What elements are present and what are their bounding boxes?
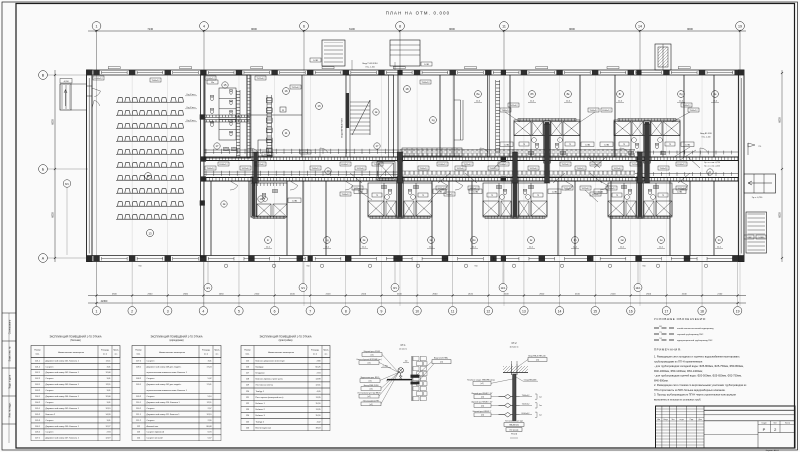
svg-text:1-ОВ4: 1-ОВ4	[604, 144, 609, 146]
svg-text:2500: 2500	[539, 293, 545, 295]
svg-text:Кабинет 3: Кабинет 3	[256, 415, 266, 417]
svg-text:910: 910	[475, 266, 478, 268]
svg-text:Двухместный номер 109 для люде: Двухместный номер 109 для людей с	[147, 383, 182, 386]
svg-text:Тамбур 2: Тамбур 2	[256, 421, 265, 423]
svg-text:1: 1	[96, 25, 98, 29]
svg-text:2шт: 2шт	[539, 414, 542, 416]
svg-text:Т3-40х2,2: Т3-40х2,2	[589, 110, 597, 112]
svg-text:Р: Р	[763, 427, 766, 432]
svg-text:Т3-40х2,2: Т3-40х2,2	[311, 168, 319, 170]
svg-text:86,48: 86,48	[206, 426, 212, 428]
svg-text:Т3-25х4,2: Т3-25х4,2	[631, 164, 639, 166]
svg-text:1050: 1050	[219, 293, 225, 295]
svg-text:12,19: 12,19	[105, 438, 111, 440]
svg-text:СТ-2: СТ-2	[511, 343, 517, 345]
svg-text:102.2: 102.2	[35, 378, 41, 380]
svg-text:Наименование помещения: Наименование помещения	[159, 352, 185, 354]
svg-text:2100: 2100	[468, 293, 474, 295]
svg-text:Т4-25х4,2: Т4-25х4,2	[581, 188, 589, 190]
svg-text:Т3-40х2,2: Т3-40х2,2	[419, 168, 427, 170]
svg-text:18: 18	[700, 309, 704, 313]
svg-text:(13 мест): (13 мест)	[510, 346, 519, 348]
svg-text:Коридор: Коридор	[256, 366, 265, 368]
svg-text:НТ1 [н3]: НТ1 [н3]	[511, 434, 517, 436]
svg-text:104.1: 104.1	[35, 396, 41, 398]
svg-text:14,98: 14,98	[315, 379, 321, 381]
svg-text:Приме-: Приме-	[113, 350, 119, 352]
svg-text:11: 11	[502, 25, 506, 29]
svg-text:107.1: 107.1	[35, 438, 41, 440]
svg-text:1-ОВ5: 1-ОВ5	[424, 64, 429, 66]
svg-text:Вентиляционная: Вентиляционная	[256, 427, 272, 429]
svg-text:9600: 9600	[687, 27, 693, 31]
svg-text:105.1: 105.1	[35, 408, 41, 410]
svg-text:150: 150	[405, 360, 408, 362]
svg-text:- для трубопроводов холодной в: - для трубопроводов холодной воды: Ф25-8…	[654, 364, 744, 368]
svg-text:1м: 1м	[620, 238, 623, 242]
svg-text:Двухместный номер 101. Комната: Двухместный номер 101. Комната 1	[46, 359, 80, 362]
svg-text:В1-40х2,2: В1-40х2,2	[499, 164, 507, 166]
svg-text:Санузел: Санузел	[46, 378, 55, 380]
svg-text:Двухместный номер 104. Комната: Двухместный номер 104. Комната 1	[46, 395, 80, 398]
svg-text:-0,950: -0,950	[63, 81, 68, 83]
svg-text:ЭКСПЛИКАЦИЯ ПОМЕЩЕНИЙ 1-ГО ЭТА: ЭКСПЛИКАЦИЯ ПОМЕЩЕНИЙ 1-ГО ЭТАЖА	[150, 336, 202, 339]
svg-text:горячий трубопровод ГВС: горячий трубопровод ГВС	[677, 333, 704, 336]
svg-text:16: 16	[629, 309, 633, 313]
svg-text:104.2: 104.2	[35, 402, 41, 404]
svg-text:103.1: 103.1	[35, 384, 41, 386]
svg-text:ВОДОМЕРНЫЙ УЗЕЛ: ВОДОМЕРНЫЙ УЗЕЛ	[341, 118, 344, 138]
svg-text:Площадь: Площадь	[101, 350, 109, 352]
svg-text:В1-40х2,2: В1-40х2,2	[602, 110, 610, 112]
svg-text:В1-40х2,2: В1-40х2,2	[591, 164, 599, 166]
svg-text:циркуляционный трубопровод ГВС: циркуляционный трубопровод ГВС	[677, 339, 713, 342]
svg-text:(коридорная): (коридорная)	[169, 340, 183, 342]
svg-text:60,26: 60,26	[315, 366, 321, 368]
svg-text:- для трубопроводов горячей во: - для трубопроводов горячей воды: Ф20-50…	[654, 374, 742, 378]
svg-text:Тамбур 1: Тамбур 1	[256, 391, 265, 393]
svg-text:1-ОВ4: 1-ОВ4	[677, 191, 682, 193]
svg-text:Кол.уч: Кол.уч	[664, 419, 669, 421]
svg-text:П-1: П-1	[759, 146, 762, 148]
svg-text:13: 13	[522, 309, 526, 313]
svg-text:17,41: 17,41	[206, 384, 212, 386]
svg-text:Санузел: Санузел	[147, 420, 156, 422]
svg-text:Листов: Листов	[785, 423, 790, 425]
svg-text:102.1: 102.1	[35, 372, 41, 374]
svg-text:Т3: Т3	[662, 195, 664, 197]
svg-text:В1-40х2,2: В1-40х2,2	[341, 164, 349, 166]
svg-text:109.1: 109.1	[136, 384, 142, 386]
svg-text:6000: 6000	[52, 212, 55, 218]
svg-text:8д: 8д	[680, 92, 683, 96]
svg-text:Приме-: Приме-	[323, 350, 329, 352]
svg-text:11: 11	[285, 131, 288, 135]
svg-text:Лист: Лист	[671, 419, 674, 421]
svg-text:105.2: 105.2	[35, 414, 41, 416]
svg-text:Т3-25х4,2: Т3-25х4,2	[256, 78, 264, 80]
svg-text:Стадия: Стадия	[761, 423, 766, 425]
svg-text:Кабинет 2: Кабинет 2	[256, 409, 266, 411]
svg-text:16: 16	[285, 89, 288, 93]
svg-text:910: 910	[307, 266, 310, 268]
svg-text:Ввод КФВ-40 ПВХ-110: Ввод КФВ-40 ПВХ-110	[528, 354, 545, 357]
svg-text:Ур.з. ч.п. отм. -0,020: Ур.з. ч.п. отм. -0,020	[704, 166, 720, 168]
svg-text:2500: 2500	[112, 293, 118, 295]
svg-text:Т3-40х2,2: Т3-40х2,2	[206, 168, 214, 170]
svg-text:Т3: Т3	[569, 144, 571, 146]
svg-text:2100: 2100	[575, 293, 581, 295]
svg-text:1б: 1б	[317, 104, 320, 108]
svg-text:Двухместный номер 110. Комната: Двухместный номер 110. Комната 1	[147, 401, 181, 404]
svg-text:1ж: 1ж	[429, 238, 432, 242]
svg-text:8: 8	[399, 25, 401, 29]
svg-text:Т4-25х4,2: Т4-25х4,2	[301, 152, 309, 154]
svg-text:Приме-: Приме-	[214, 350, 220, 352]
svg-text:12: 12	[147, 174, 150, 178]
svg-text:2. Разводящие сети стояков со: 2. Разводящие сети стояков со вертикальн…	[654, 383, 747, 387]
svg-text:2100: 2100	[717, 293, 723, 295]
svg-text:42300: 42300	[101, 300, 108, 303]
svg-text:18: 18	[406, 87, 409, 91]
svg-text:Наименование помещения: Наименование помещения	[268, 352, 294, 354]
svg-text:12: 12	[486, 309, 490, 313]
svg-text:9600: 9600	[449, 27, 455, 31]
svg-text:17: 17	[665, 309, 669, 313]
svg-text:ПЛАН НА ОТМ. 0.000: ПЛАН НА ОТМ. 0.000	[386, 11, 451, 16]
svg-text:Т4-25х4,2: Т4-25х4,2	[469, 188, 477, 190]
svg-text:109.2: 109.2	[136, 396, 142, 398]
svg-text:4: 4	[203, 25, 205, 29]
svg-text:Т4-25х4,2: Т4-25х4,2	[529, 168, 537, 170]
svg-text:2100: 2100	[504, 293, 510, 295]
svg-text:103.2: 103.2	[35, 390, 41, 392]
svg-text:12,19: 12,19	[206, 414, 212, 416]
svg-text:12,19: 12,19	[105, 408, 111, 410]
svg-text:Двухместный номер 103. Комната: Двухместный номер 103. Комната 1	[46, 383, 80, 386]
svg-text:Отм. -1,100: Отм. -1,100	[702, 136, 711, 138]
svg-text:3. Проход трубопроводов из ПП-: 3. Проход трубопроводов из ПП-Н через ст…	[654, 393, 736, 397]
svg-text:15,59: 15,59	[315, 403, 321, 405]
svg-text:2100: 2100	[361, 293, 367, 295]
svg-text:пом.: пом.	[245, 354, 250, 356]
svg-text:Дата: Дата	[699, 419, 702, 421]
svg-text:пом.: пом.	[136, 354, 141, 356]
svg-text:Изм: Изм	[657, 419, 660, 421]
svg-text:910: 910	[643, 266, 646, 268]
svg-text:Двухместный номер 106. Комната: Двухместный номер 106. Комната 1	[46, 425, 80, 428]
svg-text:12,51: 12,51	[315, 385, 321, 387]
svg-text:12,27: 12,27	[105, 426, 111, 428]
svg-text:Двухместный номер 105. Комната: Двухместный номер 105. Комната 1	[46, 407, 80, 410]
svg-text:10: 10	[415, 309, 419, 313]
svg-text:11/1: 11/1	[501, 286, 506, 290]
svg-text:106.2: 106.2	[35, 432, 41, 434]
svg-text:Т4: Т4	[659, 338, 661, 340]
svg-text:В1-40х2,2: В1-40х2,2	[94, 78, 102, 80]
svg-text:Двухместный номер 107. Комната: Двухместный номер 107. Комната 1	[46, 437, 80, 440]
svg-text:пом.: пом.	[35, 354, 40, 356]
svg-text:Наименование помещения: Наименование помещения	[58, 352, 84, 354]
svg-text:Номер: Номер	[135, 350, 142, 352]
svg-text:Санузел женский: Санузел женский	[147, 437, 163, 440]
svg-text:В1-40х2,2: В1-40х2,2	[677, 164, 685, 166]
svg-text:1-ОВ4: 1-ОВ4	[685, 144, 690, 146]
svg-text:ПРИМЕЧАНИЯ:: ПРИМЕЧАНИЯ:	[654, 348, 682, 352]
svg-text:Т3: Т3	[616, 195, 618, 197]
svg-text:УСЛОВНЫЕ ОБОЗНАЧЕНИЯ:: УСЛОВНЫЕ ОБОЗНАЧЕНИЯ:	[654, 317, 707, 321]
svg-text:Площадь: Площадь	[202, 350, 210, 352]
svg-text:Лестничная клетка: Лестничная клетка	[256, 385, 274, 387]
svg-text:СТ-1: СТ-1	[400, 345, 406, 347]
svg-text:Т3-40х2,2: Т3-40х2,2	[151, 80, 159, 82]
svg-text:Комната уборочного инвентаря: Комната уборочного инвентаря	[256, 360, 285, 362]
svg-text:(блочная): (блочная)	[70, 340, 81, 342]
svg-text:1-ОВ4: 1-ОВ4	[585, 144, 590, 146]
svg-text:15,59: 15,59	[315, 415, 321, 417]
svg-text:Т3-40х2,2: Т3-40х2,2	[501, 110, 509, 112]
svg-text:107.2: 107.2	[136, 360, 142, 362]
svg-text:6100: 6100	[349, 27, 355, 31]
svg-text:Т3: Т3	[491, 195, 493, 197]
svg-text:ограниченными возможностями. К: ограниченными возможностями. Комната 1	[147, 390, 188, 392]
svg-text:Т3: Т3	[623, 144, 625, 146]
svg-text:Комната приема и узел учета: Комната приема и узел учета	[256, 379, 284, 381]
svg-text:Ввод №1-В1 ПВХ-: Ввод №1-В1 ПВХ-	[434, 357, 449, 360]
svg-text:трубопроводами из ПП-Н применя: трубопроводами из ПП-Н применяемые:	[654, 359, 703, 363]
svg-text:2: 2	[131, 309, 133, 313]
svg-text:чан.: чан.	[324, 354, 328, 356]
svg-text:12,46: 12,46	[105, 372, 111, 374]
svg-text:2шт: 2шт	[539, 405, 542, 407]
svg-text:Комната 2: Комната 2	[46, 414, 56, 416]
svg-text:8/1: 8/1	[393, 286, 397, 290]
svg-text:14,26: 14,26	[105, 414, 111, 416]
svg-text:Санузел: Санузел	[147, 378, 156, 380]
svg-text:Т3-25х4,2: Т3-25х4,2	[291, 87, 299, 89]
svg-text:Т3-40х2,2: Т3-40х2,2	[341, 194, 349, 196]
svg-text:В1-40х2,2: В1-40х2,2	[219, 164, 227, 166]
svg-text:Т3-25х4,2: Т3-25х4,2	[561, 164, 569, 166]
svg-text:Т3-40х2,2: Т3-40х2,2	[445, 194, 453, 196]
svg-text:Формат А2х3: Формат А2х3	[765, 449, 779, 452]
svg-text:1-ОВ4: 1-ОВ4	[473, 191, 478, 193]
svg-text:Подп: Подп	[690, 419, 694, 421]
svg-text:8б: 8б	[531, 92, 534, 96]
svg-text:6000: 6000	[779, 212, 782, 218]
svg-text:2500: 2500	[432, 293, 438, 295]
svg-text:6: 6	[274, 309, 276, 313]
svg-text:106.1: 106.1	[35, 426, 41, 428]
svg-text:кв. м: кв. м	[103, 354, 108, 356]
svg-text:Т3-40х2,2: Т3-40х2,2	[607, 188, 615, 190]
svg-text:ЭКСПЛИКАЦИЯ ПОМЕЩЕНИЙ 1-ГО ЭТА: ЭКСПЛИКАЦИЯ ПОМЕЩЕНИЙ 1-ГО ЭТАЖА	[259, 336, 311, 339]
svg-text:108.1: 108.1	[136, 366, 142, 368]
svg-text:Кладовая: Кладовая	[256, 373, 265, 375]
svg-text:Пост охраны (пожарный пост): Пост охраны (пожарный пост)	[256, 396, 284, 399]
svg-text:Т3-40х2,2: Т3-40х2,2	[421, 82, 429, 84]
svg-text:910: 910	[139, 266, 142, 268]
svg-text:1: 1	[96, 309, 98, 313]
svg-text:1д: 1д	[432, 118, 435, 122]
svg-text:Санузел: Санузел	[46, 366, 55, 368]
svg-text:кв. м: кв. м	[204, 354, 209, 356]
svg-text:1. Разводящие сети холодного и: 1. Разводящие сети холодного и горячего …	[654, 355, 740, 359]
svg-text:Ф40-1000мм, Ф50-1200мм, Ф63-14: Ф40-1000мм, Ф50-1200мм, Ф63-1400мм;	[654, 369, 703, 373]
svg-text:Площадь: Площадь	[311, 350, 319, 352]
svg-text:Санузел: Санузел	[147, 360, 156, 362]
svg-text:ограниченными возможностями. К: ограниченными возможностями. Комната 1	[147, 372, 188, 374]
svg-text:18,43: 18,43	[315, 427, 321, 429]
svg-text:Т3-40х2,2: Т3-40х2,2	[689, 110, 697, 112]
svg-text:кв. м: кв. м	[313, 354, 318, 356]
svg-text:Т4-25х4,2: Т4-25х4,2	[613, 168, 621, 170]
svg-text:6/1: 6/1	[301, 286, 305, 290]
svg-text:2100: 2100	[290, 293, 296, 295]
svg-text:Т3: Т3	[523, 144, 525, 146]
svg-text:11: 11	[451, 309, 455, 313]
svg-text:Ур.з. -0,750: Ур.з. -0,750	[752, 197, 763, 199]
svg-text:Т3-40х2,2: Т3-40х2,2	[576, 168, 584, 170]
svg-text:Т4-25х4,2: Т4-25х4,2	[241, 168, 249, 170]
svg-text:19: 19	[738, 25, 742, 29]
svg-text:Санузел: Санузел	[46, 402, 55, 404]
svg-text:Лист: Лист	[774, 423, 778, 425]
svg-text:19: 19	[736, 309, 740, 313]
svg-text:Санузел: Санузел	[46, 420, 55, 422]
svg-text:Т4-25х4,2: Т4-25х4,2	[591, 194, 599, 196]
svg-text:хозяйственно-питьевой водопров: хозяйственно-питьевой водопровод	[677, 327, 714, 330]
svg-text:14: 14	[558, 309, 562, 313]
svg-text:Номер: Номер	[244, 350, 251, 352]
svg-text:17,24: 17,24	[206, 366, 212, 368]
svg-text:6000: 6000	[52, 119, 55, 125]
svg-text:Т3-25х4,2: Т3-25х4,2	[509, 105, 517, 107]
svg-text:14: 14	[638, 25, 642, 29]
svg-text:В1-40х2,2: В1-40х2,2	[206, 78, 214, 80]
svg-text:Санузел: Санузел	[46, 432, 55, 434]
svg-text:Т3: Т3	[376, 195, 378, 197]
svg-text:Ф40-900мм.: Ф40-900мм.	[654, 378, 669, 382]
svg-text:8: 8	[345, 309, 347, 313]
svg-text:Т3-25х4,2: Т3-25х4,2	[463, 164, 471, 166]
svg-text:108.2: 108.2	[136, 378, 142, 380]
svg-text:2100: 2100	[397, 293, 403, 295]
svg-text:7130: 7130	[147, 27, 153, 31]
svg-text:Отм. -1,100: Отм. -1,100	[365, 67, 375, 69]
svg-text:2500: 2500	[147, 293, 153, 295]
svg-text:выполнять в гильзах из стальны: выполнять в гильзах из стальных труб.	[654, 397, 701, 401]
svg-text:2100: 2100	[611, 293, 617, 295]
svg-text:Санузел: Санузел	[147, 396, 156, 398]
svg-text:В1-40х2,2: В1-40х2,2	[438, 164, 446, 166]
svg-text:1г: 1г	[267, 238, 269, 242]
svg-text:2500: 2500	[183, 293, 189, 295]
svg-text:9: 9	[381, 309, 383, 313]
svg-text:Ур.з. ч.п. отм. -0,750: Ур.з. ч.п. отм. -0,750	[704, 162, 720, 164]
svg-text:Т4-25х4,2: Т4-25х4,2	[353, 188, 361, 190]
svg-text:Узел расшир.: Узел расшир.	[509, 429, 519, 431]
svg-text:чан.: чан.	[114, 354, 118, 356]
svg-text:Ввод Т1-В1 Ф110: Ввод Т1-В1 Ф110	[362, 62, 377, 65]
svg-text:Т3-40х2,2: Т3-40х2,2	[489, 168, 497, 170]
svg-text:1-ОВ4: 1-ОВ4	[504, 144, 509, 146]
svg-text:1л: 1л	[574, 238, 577, 242]
svg-text:2шт: 2шт	[539, 396, 542, 398]
svg-text:9600: 9600	[569, 27, 575, 31]
svg-text:Т3: Т3	[422, 195, 424, 197]
svg-text:1-ОВ4: 1-ОВ4	[552, 191, 557, 193]
svg-text:Узел промывки для труб: Узел промывки для труб	[505, 421, 523, 423]
svg-text:Т4-25х4,2: Т4-25х4,2	[263, 154, 271, 156]
svg-text:5: 5	[238, 309, 240, 313]
svg-text:Актовый зал: Актовый зал	[147, 425, 159, 428]
svg-text:105.3: 105.3	[35, 420, 41, 422]
svg-text:Т3-25х4,2: Т3-25х4,2	[373, 164, 381, 166]
svg-text:101.1: 101.1	[35, 360, 41, 362]
svg-text:6000: 6000	[779, 117, 782, 123]
svg-text:9600: 9600	[251, 27, 257, 31]
svg-text:Двухместный номер 108 для люде: Двухместный номер 108 для людей с	[147, 365, 182, 368]
svg-text:8г: 8г	[619, 92, 621, 96]
svg-text:13: 13	[148, 231, 152, 235]
svg-text:Т3: Т3	[537, 195, 539, 197]
svg-text:2100: 2100	[326, 293, 332, 295]
svg-text:4: 4	[202, 309, 204, 313]
svg-text:Т3-40х2,2: Т3-40х2,2	[659, 168, 667, 170]
svg-text:Кабинет 1: Кабинет 1	[256, 403, 266, 405]
svg-text:В1: В1	[659, 326, 661, 328]
svg-text:15: 15	[593, 309, 597, 313]
svg-text:№ док: № док	[679, 419, 684, 421]
svg-text:14/1: 14/1	[635, 286, 641, 290]
svg-text:Санузел: Санузел	[46, 390, 55, 392]
svg-text:Санузел: Санузел	[147, 408, 156, 410]
svg-text:12,46: 12,46	[105, 396, 111, 398]
svg-text:Т3-25х4,2: Т3-25х4,2	[256, 164, 264, 166]
svg-text:Двухместный номер 111. Комната: Двухместный номер 111. Комната 1	[147, 413, 181, 416]
svg-text:1д: 1д	[326, 238, 329, 242]
svg-text:Т4-25х4,2: Т4-25х4,2	[456, 168, 464, 170]
svg-text:6: 6	[303, 25, 305, 29]
svg-text:Т3: Т3	[669, 144, 671, 146]
svg-text:Номер: Номер	[34, 350, 41, 352]
svg-text:101.2: 101.2	[35, 366, 41, 368]
svg-text:Т3-40х2,2: Т3-40х2,2	[682, 105, 690, 107]
svg-text:Т3: Т3	[659, 332, 661, 334]
svg-text:1-ОВ5: 1-ОВ5	[313, 60, 318, 62]
svg-text:(пристройка): (пристройка)	[279, 339, 293, 342]
svg-text:7: 7	[309, 309, 311, 313]
svg-text:Санузел приемной: Санузел приемной	[147, 431, 164, 434]
svg-text:1-ОВ4: 1-ОВ4	[292, 200, 297, 202]
svg-text:ПП-Н проложить из 50% больше в: ПП-Н проложить из 50% больше водоразборн…	[654, 388, 726, 392]
svg-text:2100: 2100	[254, 293, 260, 295]
svg-text:Т4-25х4,2: Т4-25х4,2	[356, 168, 364, 170]
svg-text:Двухместный номер 102. Комната: Двухместный номер 102. Комната 1	[46, 371, 80, 374]
svg-text:Ввод В1 Ф110: Ввод В1 Ф110	[700, 132, 712, 135]
svg-text:А: А	[282, 108, 284, 112]
svg-text:2100: 2100	[682, 293, 688, 295]
svg-text:4/1: 4/1	[206, 286, 210, 290]
svg-text:чан.: чан.	[215, 354, 219, 356]
svg-text:ЭКСПЛИКАЦИЯ ПОМЕЩЕНИЙ 1-ГО ЭТА: ЭКСПЛИКАЦИЯ ПОМЕЩЕНИЙ 1-ГО ЭТАЖА	[49, 336, 101, 339]
svg-text:3: 3	[167, 309, 169, 313]
svg-text:2500: 2500	[646, 293, 652, 295]
svg-text:(1 мест): (1 мест)	[399, 349, 407, 351]
